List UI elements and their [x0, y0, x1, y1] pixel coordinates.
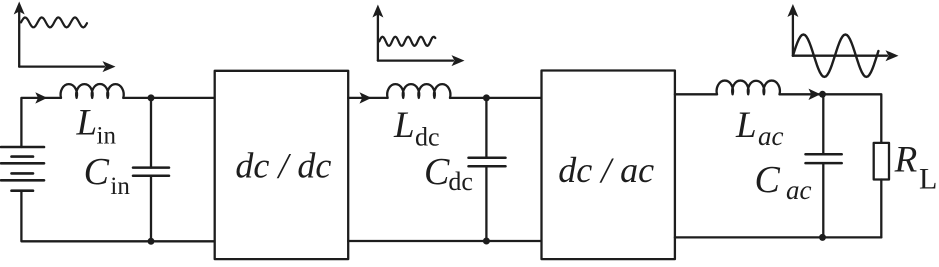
svg-text:dc / dc: dc / dc: [235, 145, 331, 185]
capacitor C1 (C_in): [133, 98, 169, 241]
resistor R1 (R_L): [874, 143, 889, 180]
waveform icon 2 horizontal axis: [378, 55, 465, 66]
bottom middle rail wire: [348, 240, 541, 242]
converter block U1 dc/dc: [215, 71, 349, 259]
waveform icon 2 dc ripple wave: [379, 37, 435, 46]
svg-text:L: L: [735, 105, 757, 146]
inductor L3 (L_ac): [717, 81, 780, 95]
node C (top of C_dc): [483, 94, 490, 101]
wire dc/ac output top right rail: [675, 93, 717, 95]
svg-text:in: in: [97, 123, 117, 150]
inductor L1 (L_in): [61, 84, 124, 98]
converter block U2 dc/ac: [542, 71, 675, 260]
current arrow into L_in: [35, 92, 47, 103]
node F (bottom of C_ac): [819, 234, 826, 241]
waveform icon 1 vertical axis: [14, 2, 25, 67]
node E (top of C_ac): [819, 91, 826, 98]
waveform icon 3 ac sine wave: [793, 35, 879, 77]
waveform icon 3 horizontal axis: [793, 50, 899, 61]
current arrow into node E: [809, 89, 821, 100]
svg-text:L: L: [76, 103, 98, 144]
svg-text:R: R: [894, 140, 918, 181]
node B (bottom of C_in): [148, 238, 155, 245]
svg-text:dc: dc: [448, 167, 473, 196]
wire L_dc to dc/ac input: [450, 97, 542, 99]
svg-text:in: in: [110, 173, 130, 200]
node D (bottom of C_dc): [483, 238, 490, 245]
svg-text:C: C: [755, 159, 781, 201]
svg-text:ac: ac: [786, 175, 812, 205]
wire L_in to dc/dc input: [123, 97, 215, 99]
node A (top of C_in): [148, 94, 155, 101]
current arrow into L_dc: [360, 92, 372, 103]
battery V1: [1, 147, 44, 191]
wire battery negative to bottom rail: [21, 191, 215, 242]
waveform icon 1 horizontal axis: [19, 61, 115, 72]
inductor L2 (L_dc): [387, 84, 450, 98]
svg-text:L: L: [919, 163, 937, 196]
wire L_ac to R_L top: [780, 94, 882, 143]
waveform icon 3 vertical axis: [787, 4, 798, 56]
svg-text:ac: ac: [758, 121, 784, 151]
bottom right rail wire: [675, 236, 881, 238]
svg-text:L: L: [393, 105, 415, 146]
waveform icon 1 dc ripple wave: [21, 17, 87, 27]
svg-text:dc: dc: [415, 123, 440, 152]
svg-text:dc / ac: dc / ac: [558, 150, 654, 190]
wire dc/dc output to dc/ac input (top middle rail): [348, 97, 387, 99]
capacitor C3 (C_ac): [806, 94, 842, 237]
wire battery positive to top rail: [21, 98, 61, 147]
svg-text:C: C: [84, 151, 110, 193]
svg-text:C: C: [424, 151, 450, 193]
capacitor C2 (C_dc): [469, 98, 506, 241]
wire R_L bottom to bottom rail: [880, 180, 882, 238]
waveform icon 2 vertical axis: [372, 5, 383, 61]
